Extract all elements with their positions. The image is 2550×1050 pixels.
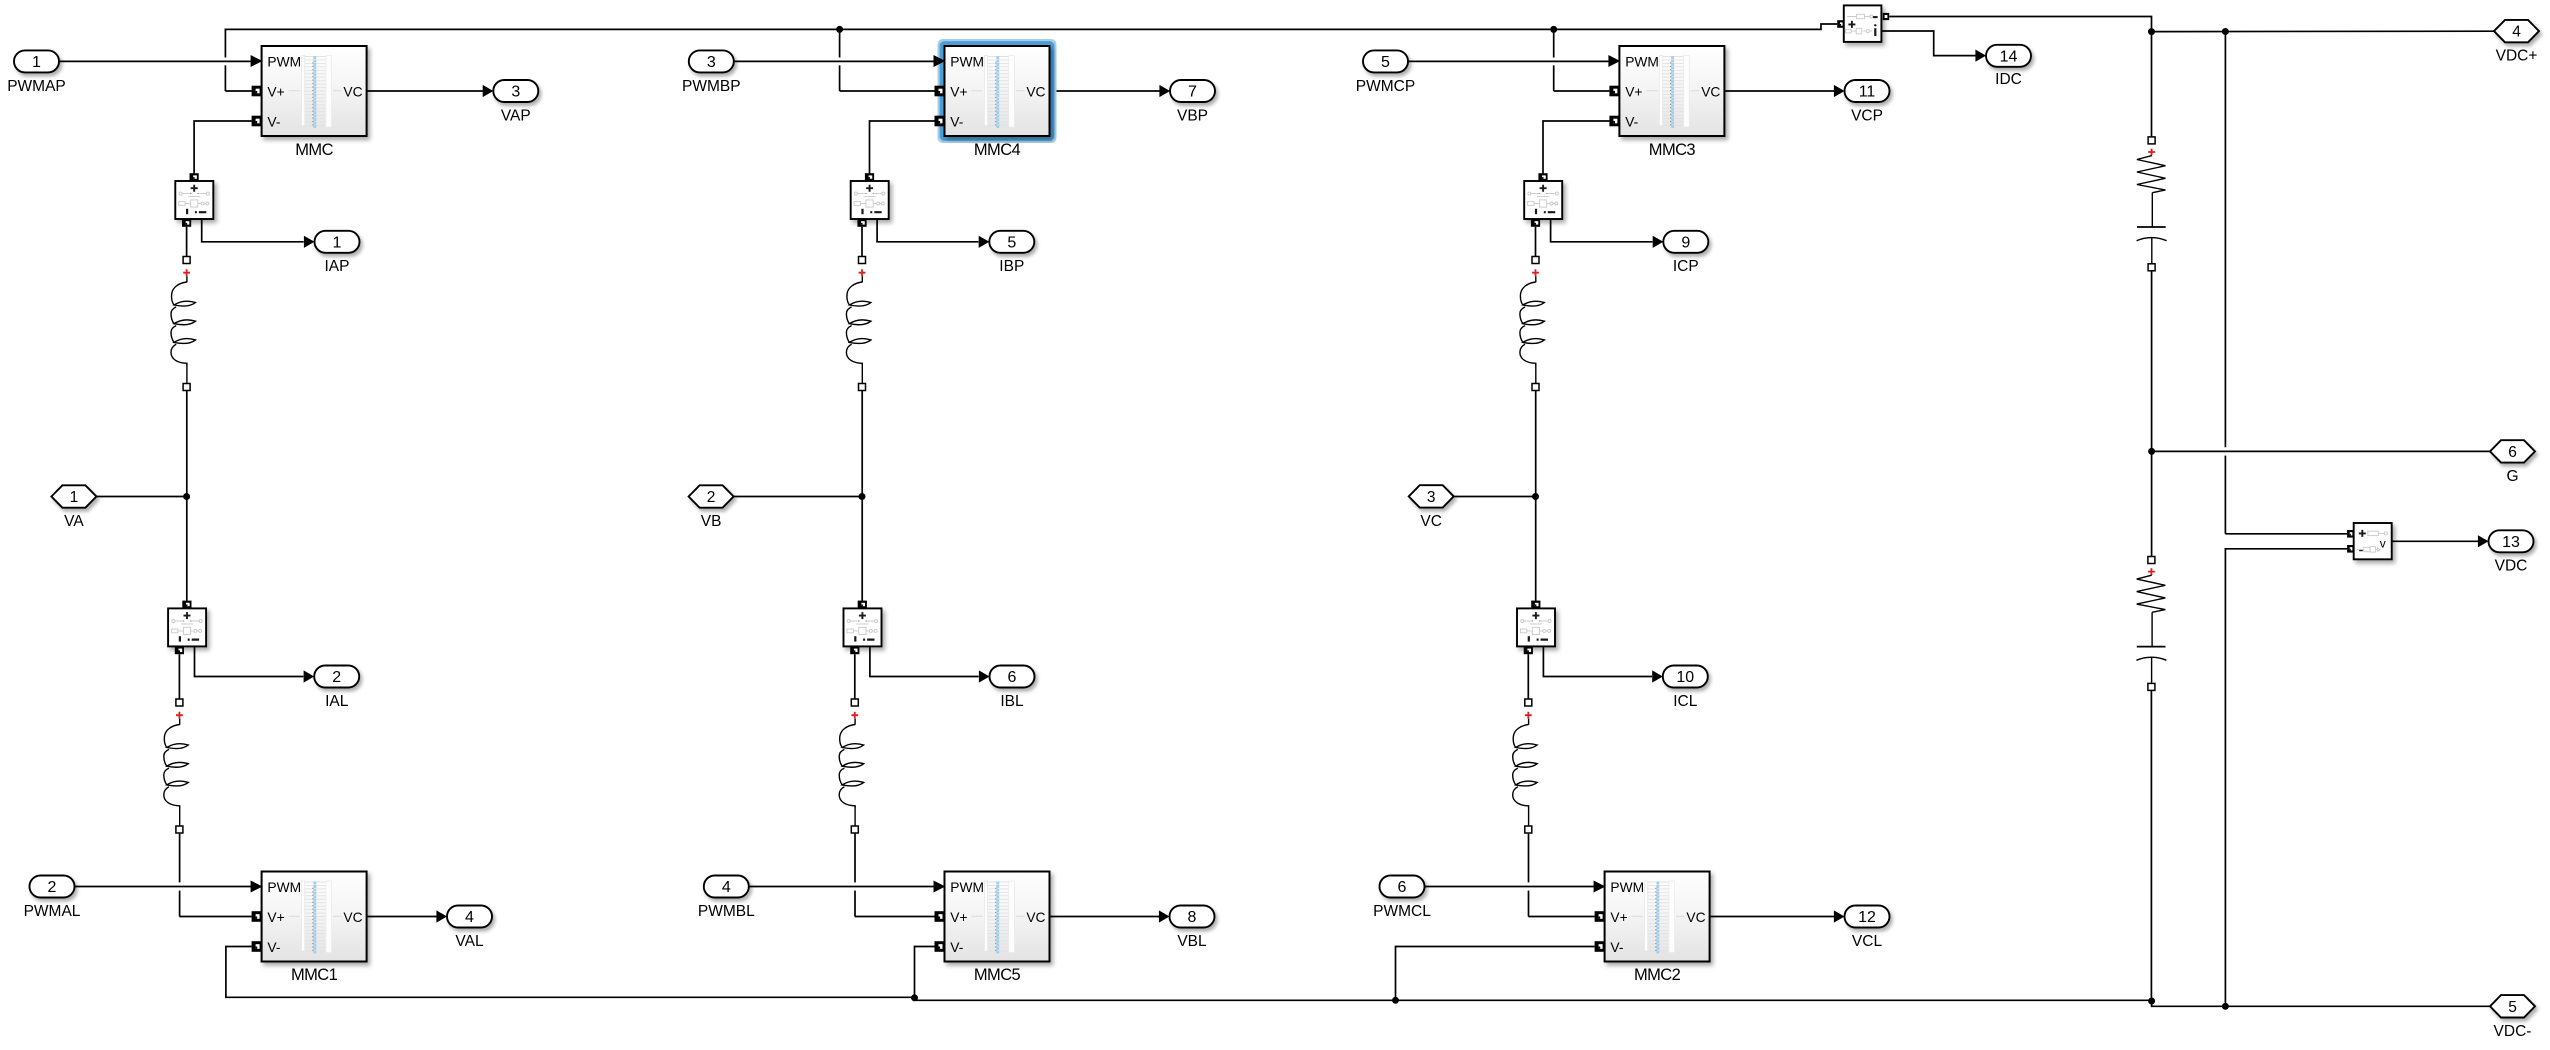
output port 8 VBL [1170,906,1215,928]
junction phase node [859,493,866,500]
junction DC+ node / RC branch 1 [2148,28,2155,35]
wire V+ stub MMC4 [840,90,935,92]
current sensor phase B upper [865,173,874,181]
svg-text:VB: VB [701,513,722,530]
svg-text:VDC+: VDC+ [2496,48,2538,65]
svg-text:VC: VC [343,910,362,925]
output port 6 IBL [990,666,1035,688]
svg-text:VAP: VAP [501,107,531,124]
wire inductor to lower sensor via phase node [1535,391,1537,601]
wire lower inductor to V+ [1528,834,1530,883]
svg-text:MMC2: MMC2 [1634,966,1681,984]
output port 9 ICP [1663,231,1708,253]
svg-text:MMC5: MMC5 [974,966,1021,984]
wire MMC4 VC to VBP [1050,90,1160,92]
junction DC- rail / RC branch 2 [2148,998,2155,1005]
wire MMC3 VC to VCP [1725,90,1835,92]
svg-text:PWM: PWM [950,55,984,70]
inductor L phase B upper [859,257,866,264]
resistor R2 + capacitor C2 branch [2148,557,2155,564]
wire phase hexagon to node [1454,496,1536,498]
wire sensor to inductor [861,227,863,257]
wire ground node to G hexagon [2152,450,2490,452]
svg-text:V-: V- [267,115,280,130]
inductor L phase A upper [183,257,190,264]
output port 5 IBP [989,231,1034,253]
svg-text:VDC-: VDC- [2494,1023,2532,1040]
wire MMC V- to sensor A [194,121,252,173]
svg-text:MMC4: MMC4 [974,141,1021,159]
svg-text:5: 5 [1007,234,1016,251]
current sensor phase A upper [190,173,199,181]
wire V+ drop column A lower part [224,65,226,91]
wire inductor to lower sensor via phase node [861,391,863,601]
svg-text:VC: VC [343,85,362,100]
wire V+ stub MMC3 [1554,90,1610,92]
wire V+ stub MMC [225,90,251,92]
wire V+ drop column B lower part [839,65,841,91]
connection port 6 G [2490,440,2535,462]
junction DC- rail / MMC2 [1392,997,1399,1004]
junction bus/column C [1550,26,1557,33]
wire sensor to inductor [1535,227,1537,257]
resistor R1 + capacitor C1 branch [2148,137,2155,144]
output port 11 VCP [1845,80,1890,102]
junction phase node [183,493,190,500]
svg-text:V-: V- [1625,115,1638,130]
connection port 3 VC [1409,485,1454,507]
current sensor phase A lower [182,601,191,609]
connection port 2 VB [689,485,734,507]
svg-text:IAL: IAL [325,693,349,710]
svg-text:PWMCL: PWMCL [1373,903,1431,920]
current sensor phase B lower [858,601,867,609]
svg-text:VCP: VCP [1851,107,1883,124]
current sensor phase C upper [1538,173,1547,181]
svg-text:V-: V- [1610,940,1623,955]
wire to V+ port of lower MMC [855,916,935,918]
svg-text:PWMAP: PWMAP [7,78,66,95]
svg-text:5: 5 [1381,54,1390,71]
wire MMC5 VC to VBL [1050,916,1159,918]
svg-text:IAP: IAP [325,258,350,275]
wire DC- rail to VDC- port [2152,1000,2490,1006]
svg-text:V+: V+ [267,910,284,925]
svg-text:PWM: PWM [267,55,301,70]
wire MMC3 V- to sensor C [1543,121,1609,173]
input port 6 PWMCL [1380,876,1425,898]
svg-text:ICL: ICL [1673,693,1698,710]
junction DC- rail / MMC5 [911,994,918,1001]
wire lower inductor to V+ below hop [1528,891,1530,917]
wire lower sensor i out [195,646,304,676]
output port 10 ICL [1663,666,1708,688]
voltmeter VDC block [2347,530,2354,538]
current sensor IDC block [1837,20,1844,28]
wire MMC2 V- to DC- rail [1396,947,1595,1001]
output port 13 VDC [2489,530,2534,552]
inductor L phase A lower [176,699,183,706]
junction DC- rail / sense wire [2222,1003,2229,1010]
wire MMC2 VC to VCL [1710,916,1834,918]
wire ground node down to R2 [2151,451,2153,556]
svg-text:14: 14 [2000,48,2018,65]
input port 5 PWMCP [1363,50,1408,72]
svg-text:ICP: ICP [1673,258,1699,275]
svg-text:5: 5 [2508,999,2517,1016]
inductor L phase B lower [851,699,858,706]
svg-text:V-: V- [950,115,963,130]
svg-text:v: v [2380,536,2386,550]
junction bus/column B [836,26,843,33]
wire phase hexagon to node [734,496,862,498]
svg-text:MMC: MMC [295,141,333,159]
svg-text:VAL: VAL [455,933,484,950]
connection port 1 VA [51,485,96,507]
wire lower sensor i out [1543,646,1652,676]
MMC subsystem block MMC4 [939,40,1056,142]
junction DC+ node / sense wire [2222,28,2229,35]
svg-text:VC: VC [1420,513,1442,530]
wire lower sensor i out [870,646,979,676]
svg-text:7: 7 [1188,84,1197,101]
wire sensor i out to IAP [202,219,304,242]
wire voltmeter - to DC- rail [2225,549,2347,1007]
input port 2 PWMAL [30,876,75,898]
junction ground node [2148,448,2155,455]
svg-text:V+: V+ [1610,910,1627,925]
inductor L phase C lower [1525,699,1532,706]
svg-text:PWMCP: PWMCP [1356,78,1415,95]
MMC subsystem block MMC3 [1619,46,1724,136]
output port 3 VAP [493,80,538,102]
output port 4 VAL [447,906,492,928]
svg-text:PWM: PWM [950,880,984,895]
svg-text:VCL: VCL [1852,933,1883,950]
wire lower inductor to V+ [854,834,856,883]
output port 14 IDC [1986,45,2031,67]
svg-text:V-: V- [950,940,963,955]
MMC subsystem block MMC1 [262,872,367,962]
wire lower inductor to V+ [179,834,181,883]
wire DC+ node down to R1 [2151,32,2153,137]
wire DC+ sense rail lower [2224,456,2226,534]
connection port 5 VDC- [2490,995,2535,1017]
svg-text:13: 13 [2502,534,2520,551]
wire sensor i out to ICP [1551,219,1653,242]
MMC subsystem block MMC [262,46,367,136]
wire PWMCP to MMC3 [1408,60,1609,62]
wire current sensor - to DC+ node [1889,17,2151,32]
wire inductor to lower sensor via phase node [186,391,188,601]
wire lower inductor to V+ below hop [854,891,856,917]
wire current sensor i out to IDC [1882,31,1976,56]
svg-text:11: 11 [1859,84,1876,101]
svg-text:VBL: VBL [1177,933,1207,950]
wire V+ drop column C lower part [1553,65,1555,91]
wire V+ drop column B [839,29,841,57]
svg-text:6: 6 [1008,669,1017,686]
svg-text:VC: VC [1026,85,1045,100]
wire V+ drop column C [1553,29,1555,57]
svg-text:PWM: PWM [1610,880,1644,895]
svg-text:9: 9 [1681,234,1690,251]
wire to voltmeter + [2225,533,2347,535]
junction phase node [1532,493,1539,500]
wire lower sensor to lower inductor [1527,654,1529,699]
wire voltmeter V to VDC port [2392,540,2478,542]
svg-text:8: 8 [1188,909,1197,926]
svg-text:PWMAL: PWMAL [24,903,81,920]
svg-text:PWMBP: PWMBP [682,78,741,95]
wire C1 to ground node [2151,271,2153,452]
MMC subsystem block MMC5 [945,872,1050,962]
svg-text:4: 4 [722,879,731,896]
svg-text:2: 2 [48,879,57,896]
inductor L phase C upper [1532,257,1539,264]
svg-text:V-: V- [267,940,280,955]
svg-text:3: 3 [1427,489,1436,506]
wire MMC1 VC to VAL [367,916,437,918]
svg-text:3: 3 [511,84,520,101]
wire DC- rail mid segment [915,997,2152,1000]
wire sensor i out to IBP [877,219,978,242]
wire lower sensor to lower inductor [854,654,856,699]
output port 1 IAP [315,231,360,253]
svg-text:VC: VC [1701,85,1720,100]
wire DC+ sense rail upper [2224,32,2226,448]
svg-text:4: 4 [465,909,474,926]
wire PWMAL to MMC1 [74,886,251,888]
wire DC+ node to VDC+ hexagon [2152,30,2494,32]
wire to V+ port of lower MMC [179,916,251,918]
wire C2 down to DC- rail [2150,690,2152,1001]
svg-text:2: 2 [332,669,341,686]
wire PWMBP to MMC4 [734,60,934,62]
svg-text:6: 6 [1398,879,1407,896]
svg-text:1: 1 [70,489,79,506]
wire to V+ port of lower MMC [1528,916,1594,918]
wire MMC1 V- to DC- rail [226,947,915,998]
svg-text:IBL: IBL [1000,693,1024,710]
svg-text:VDC: VDC [2495,558,2528,575]
wire sensor to inductor [186,227,188,257]
wire MMC5 V- to DC- rail [915,947,935,998]
wire phase hexagon to node [96,496,186,498]
svg-text:VBP: VBP [1177,107,1208,124]
connection port 4 VDC+ [2494,20,2539,42]
svg-text:12: 12 [1858,909,1876,926]
svg-text:IDC: IDC [1995,71,2022,88]
svg-text:PWM: PWM [1625,55,1659,70]
svg-text:MMC1: MMC1 [291,966,338,984]
svg-text:PWM: PWM [267,880,301,895]
svg-text:6: 6 [2508,444,2517,461]
input port 4 PWMBL [704,876,749,898]
svg-text:MMC3: MMC3 [1649,141,1696,159]
svg-text:VC: VC [1686,910,1705,925]
wire PWMAP to MMC [59,60,252,62]
wire MMC4 V- to sensor B [870,121,935,173]
svg-text:VA: VA [64,513,84,530]
svg-text:V+: V+ [267,85,284,100]
svg-text:V+: V+ [1625,85,1642,100]
svg-text:PWMBL: PWMBL [698,903,755,920]
svg-text:V+: V+ [950,85,967,100]
wire PWMCL to MMC2 [1425,886,1595,888]
svg-text:V+: V+ [950,910,967,925]
output port 7 VBP [1170,80,1215,102]
input port 3 PWMBP [689,50,734,72]
svg-text:4: 4 [2512,24,2521,41]
input port 1 PWMAP [14,50,59,72]
wire lower sensor to lower inductor [178,654,180,699]
MMC subsystem block MMC2 [1605,872,1710,962]
svg-text:2: 2 [707,489,716,506]
svg-text:10: 10 [1676,669,1694,686]
wire lower inductor to V+ below hop [179,891,181,917]
svg-text:G: G [2506,468,2518,485]
wire MMC VC to VAP [367,90,483,92]
wire top DC+ bus from MMC V+ to current sensor [225,24,1837,58]
svg-text:3: 3 [707,54,716,71]
output port 12 VCL [1845,906,1890,928]
svg-text:IBP: IBP [999,258,1024,275]
svg-text:VC: VC [1026,910,1045,925]
current sensor phase C lower [1531,601,1540,609]
wire PWMBL to MMC5 [749,886,934,888]
output port 2 IAL [314,666,359,688]
svg-text:1: 1 [32,54,41,71]
svg-text:1: 1 [333,234,342,251]
